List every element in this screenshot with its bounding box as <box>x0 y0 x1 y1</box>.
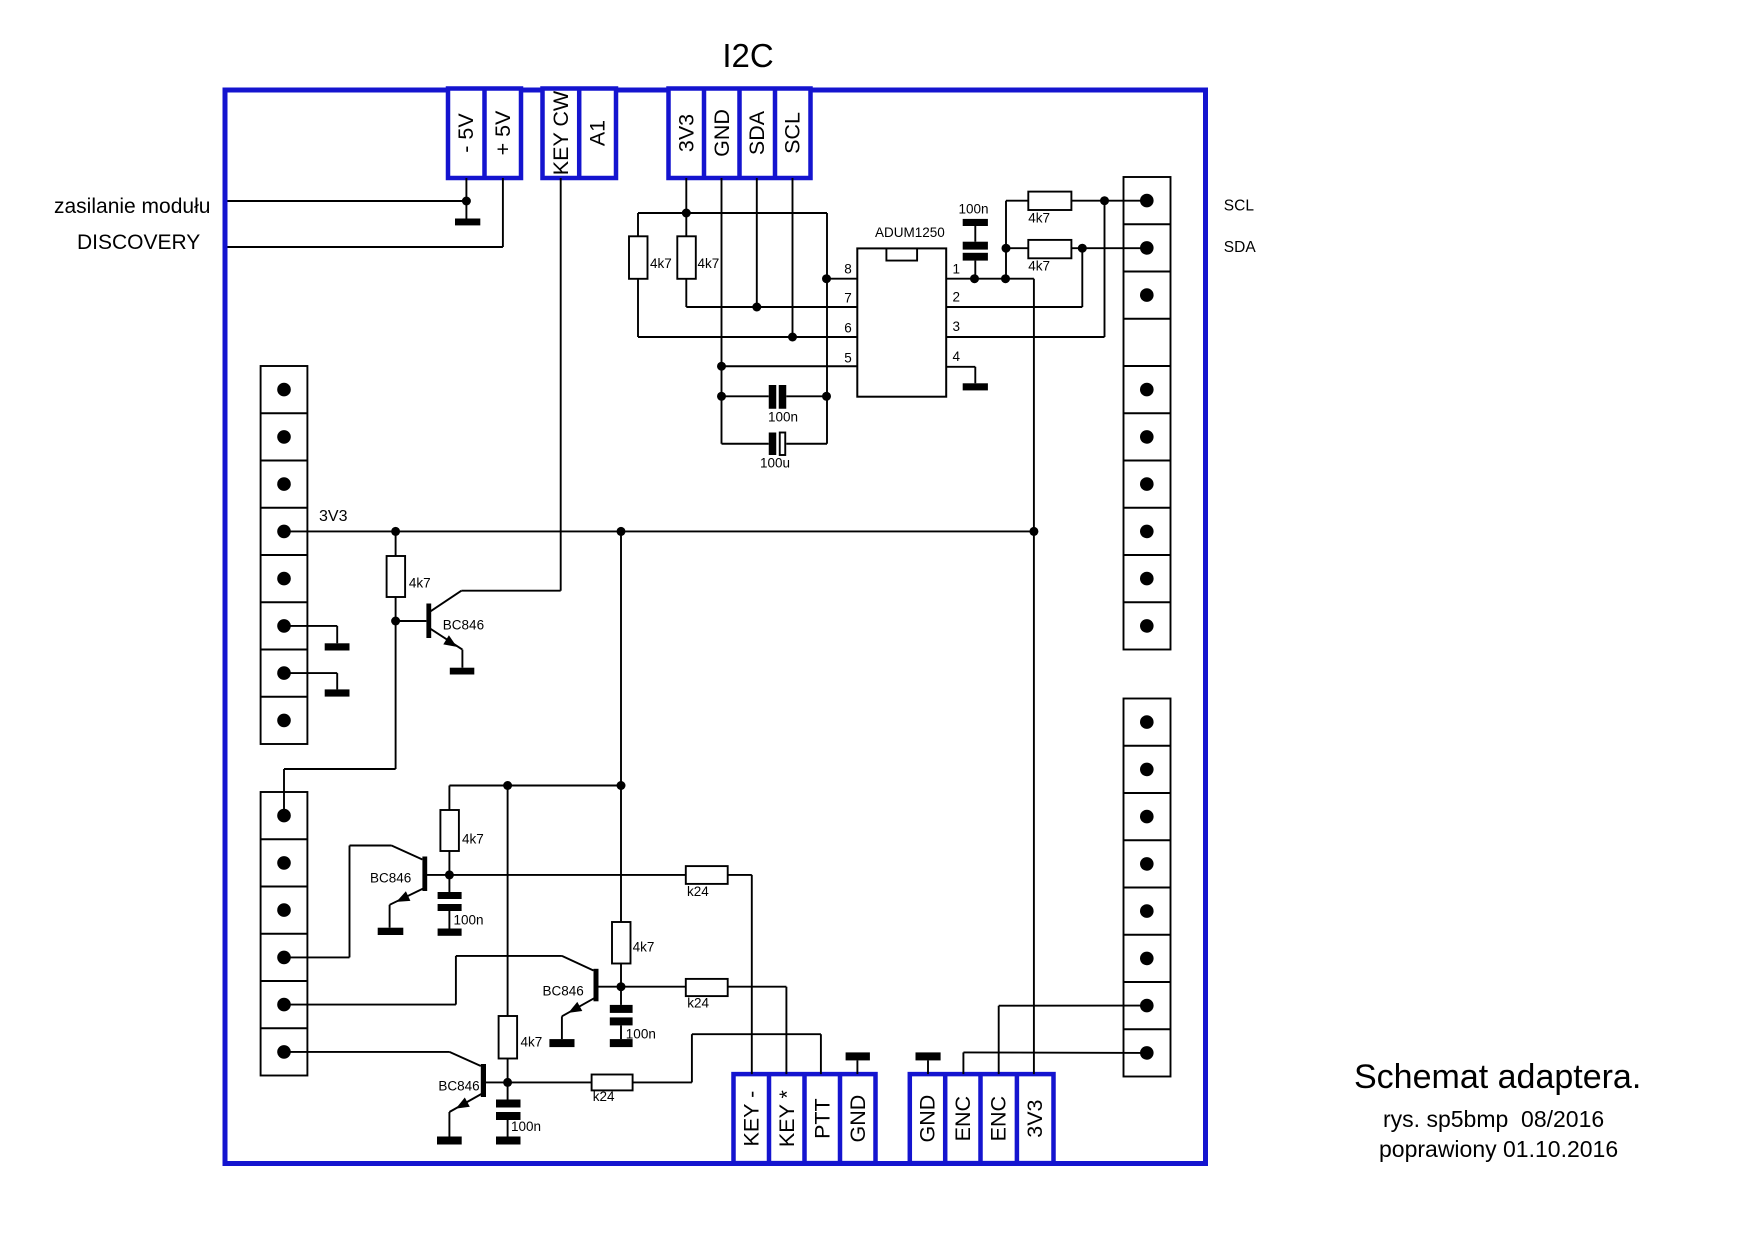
svg-text:6: 6 <box>844 320 852 335</box>
wire pin8 line <box>822 213 857 444</box>
resistor R4 4k7 (SDA pullup) <box>1006 240 1147 273</box>
wire SDA connector vertical to pin7 <box>752 178 761 312</box>
svg-text:PTT: PTT <box>810 1098 834 1139</box>
svg-text:KEY -: KEY - <box>739 1091 763 1147</box>
svg-text:4k7: 4k7 <box>462 832 484 847</box>
svg-text:Schemat adaptera.: Schemat adaptera. <box>1354 1058 1641 1096</box>
svg-text:ADUM1250: ADUM1250 <box>875 225 945 240</box>
connector J7 right bottom header 8 pins <box>1124 699 1171 1077</box>
resistor R9 k24 (Q2) <box>449 866 751 899</box>
wire R9 to KEY- <box>751 875 753 1074</box>
svg-text:SDA: SDA <box>1224 239 1257 256</box>
svg-text:BC846: BC846 <box>543 984 584 999</box>
wire +5V net <box>228 178 503 247</box>
wire pin2 to SDA row <box>946 248 1082 307</box>
resistor R6 4k7 (Q2 base) <box>440 786 483 875</box>
ground (C4) <box>438 929 462 936</box>
svg-text:4k7: 4k7 <box>1028 210 1050 225</box>
wire pin4 to ground <box>946 367 975 384</box>
resistor R5 4k7 (Q1 base) <box>387 531 431 621</box>
op-amp U1 ADUM1250 <box>844 225 960 397</box>
svg-text:BC846: BC846 <box>370 871 411 886</box>
svg-text:+ 5V: + 5V <box>491 110 515 155</box>
ground (Q2 emitter) <box>378 928 404 935</box>
svg-text:4k7: 4k7 <box>521 1035 543 1050</box>
resistor R1 4k7 <box>629 213 672 337</box>
ground (J4 pin7) <box>284 673 350 697</box>
resistor R3 4k7 (SCL pullup) <box>1002 192 1147 279</box>
svg-text:BC846: BC846 <box>443 618 484 633</box>
wire pin7 line <box>686 306 857 308</box>
svg-text:4k7: 4k7 <box>698 256 720 271</box>
ground (Q1 emitter) <box>450 668 475 675</box>
wire SCL connector vertical to pin6 <box>788 178 797 342</box>
connector J5 left bottom header 6 pins <box>261 792 308 1076</box>
svg-text:100n: 100n <box>959 202 989 217</box>
svg-text:1: 1 <box>953 262 961 277</box>
svg-text:k24: k24 <box>593 1089 615 1104</box>
svg-text:SCL: SCL <box>1224 198 1255 215</box>
ground (C6) <box>496 1137 521 1145</box>
wire pin3 to SCL row <box>946 201 1104 337</box>
svg-text:- 5V: - 5V <box>454 113 478 153</box>
capacitor C2 100n (under U1) <box>722 385 828 425</box>
wire 3V3 rail <box>284 527 1034 536</box>
svg-text:BC846: BC846 <box>438 1079 479 1094</box>
connector J6 right top header 10 pins <box>1124 177 1171 650</box>
ground (C5) <box>610 1039 633 1047</box>
connector J8 (KEY- KEY* PTT GND) <box>734 1074 876 1163</box>
svg-text:8: 8 <box>844 262 852 277</box>
connector J2 (KEY CW A1) <box>543 89 617 179</box>
wire Q3 collector to J5 pin5 <box>284 956 562 1005</box>
svg-text:3V3: 3V3 <box>319 508 348 525</box>
svg-text:A1: A1 <box>586 120 610 146</box>
wire -5V net <box>228 178 471 219</box>
svg-text:100u: 100u <box>760 456 790 471</box>
wire 3V3 connector to node A (y213) <box>638 178 827 236</box>
svg-text:SDA: SDA <box>745 110 769 155</box>
resistor R7 4k7 (Q3 base) <box>612 922 654 987</box>
connector J1 (-5V +5V) <box>448 89 521 179</box>
svg-text:4k7: 4k7 <box>633 940 655 955</box>
svg-text:5: 5 <box>844 350 852 365</box>
wire KEY CW to Q1 collector <box>461 178 560 591</box>
svg-text:rys. sp5bmp 08/2016: rys. sp5bmp 08/2016 <box>1383 1106 1604 1132</box>
wire pin5 line <box>722 365 858 367</box>
wire Q1 base to J5 pin1 <box>284 621 396 816</box>
svg-text:ENC: ENC <box>987 1096 1011 1141</box>
wire GND connector vertical <box>717 178 726 444</box>
transistor Q3 BC846 (mirrored) <box>543 956 626 1039</box>
connector J4 left top header 8 pins <box>261 366 308 744</box>
wire pin6 line <box>638 336 857 338</box>
ground (Q3 emitter) <box>549 1039 574 1047</box>
wire ENC1 to J7 pin8 <box>963 1052 1146 1074</box>
svg-text:100n: 100n <box>511 1119 541 1134</box>
capacitor C3 100u <box>722 433 828 471</box>
ground (pin4) <box>963 383 988 390</box>
svg-text:3V3: 3V3 <box>674 114 698 152</box>
ground (Q4 emitter) <box>437 1137 462 1145</box>
wire ENC2 to J7 pin7 <box>999 1006 1147 1075</box>
svg-text:ENC: ENC <box>951 1096 975 1141</box>
svg-text:4k7: 4k7 <box>1028 258 1050 273</box>
resistor R10 k24 (Q3) <box>621 979 786 1011</box>
wire R10 to KEY* <box>785 987 787 1074</box>
ground (J9 GND) <box>916 1052 941 1074</box>
wire Q2 collector to J5 pin4 <box>284 846 392 958</box>
transistor Q4 BC846 (mirrored) <box>438 1052 512 1137</box>
svg-text:7: 7 <box>844 291 852 306</box>
svg-text:GND: GND <box>710 109 734 157</box>
svg-text:3V3: 3V3 <box>1023 1099 1047 1137</box>
capacitor C4 100n (Q2 base) <box>438 875 484 929</box>
svg-text:k24: k24 <box>687 884 709 899</box>
resistor R11 k24 (Q4) <box>508 1075 692 1105</box>
svg-text:4k7: 4k7 <box>650 256 672 271</box>
resistor R8 4k7 (Q4 base) <box>499 786 543 1083</box>
ground (J4 pin6) <box>284 626 350 651</box>
capacitor C5 100n (Q3 base) <box>610 987 656 1042</box>
wire Q4 collector to J5 pin6 <box>284 1051 449 1053</box>
wire R11 to PTT <box>692 1034 821 1082</box>
svg-text:100n: 100n <box>454 913 484 928</box>
transistor Q2 BC846 (mirrored) <box>370 846 454 928</box>
svg-text:poprawiony 01.10.2016: poprawiony 01.10.2016 <box>1379 1136 1618 1162</box>
svg-text:2: 2 <box>953 290 961 305</box>
svg-text:k24: k24 <box>687 996 709 1011</box>
svg-text:4: 4 <box>953 349 961 364</box>
capacitor C6 100n (Q4 base) <box>496 1082 541 1136</box>
svg-text:KEY CW: KEY CW <box>549 90 573 175</box>
svg-text:3: 3 <box>953 319 961 334</box>
resistor R2 4k7 <box>677 236 719 307</box>
svg-text:zasilanie modułu: zasilanie modułu <box>54 195 210 218</box>
wire 3V3 sub-rail y785 <box>449 531 625 922</box>
svg-text:KEY *: KEY * <box>775 1089 799 1147</box>
connector J9 (GND ENC ENC 3V3) <box>910 1074 1054 1163</box>
ground (-5V) <box>455 219 480 226</box>
transistor Q1 BC846 <box>391 591 484 668</box>
svg-text:100n: 100n <box>768 410 798 425</box>
svg-text:GND: GND <box>916 1095 940 1143</box>
connector J3 (3V3 GND SDA SCL) <box>669 89 811 179</box>
svg-text:4k7: 4k7 <box>409 576 431 591</box>
module outline <box>225 90 1206 1164</box>
svg-text:I2C: I2C <box>722 37 773 74</box>
capacitor C1 100n (pin1 decoupling) <box>959 202 989 279</box>
svg-text:GND: GND <box>846 1095 870 1143</box>
ground (J8 GND) <box>846 1052 870 1074</box>
svg-text:DISCOVERY: DISCOVERY <box>77 231 200 254</box>
wire pin1 net <box>946 274 1038 1074</box>
svg-text:SCL: SCL <box>781 112 805 154</box>
